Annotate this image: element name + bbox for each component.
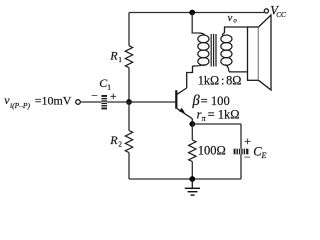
svg-text:+: +	[110, 89, 117, 103]
resistor RE 100 Ohm	[189, 140, 196, 162]
label V_CC	[270, 3, 286, 19]
wire: CE branch upper	[240, 124, 242, 149]
wire: C1 to transistor base	[107, 101, 175, 103]
svg-text:v: v	[228, 12, 233, 24]
transformer primary winding	[193, 33, 209, 66]
label R1	[109, 49, 122, 65]
speaker cone	[259, 15, 272, 90]
svg-text:= 100: = 100	[201, 94, 230, 108]
svg-text:R: R	[109, 133, 118, 147]
wire: base node down to R2	[128, 102, 130, 131]
wire: RE to ground rail	[191, 162, 193, 180]
capacitor C1 (electrolytic block)	[101, 95, 107, 109]
label v_o	[228, 12, 238, 24]
wire: emitter diag end down to node	[191, 119, 193, 124]
svg-text:+: +	[244, 134, 251, 148]
svg-text:=10mV: =10mV	[35, 93, 72, 107]
node: emitter junction dot	[189, 121, 195, 127]
resistor R2	[125, 131, 132, 153]
label C1	[99, 76, 111, 92]
svg-text:= 1kΩ: = 1kΩ	[208, 107, 240, 121]
label r_pi = 1kOhm	[197, 107, 240, 123]
svg-text:CC: CC	[276, 11, 286, 19]
wire: R2 to bottom rail	[128, 153, 130, 179]
node: base junction dot	[126, 99, 132, 105]
svg-text:1: 1	[118, 55, 122, 64]
label v_i(P-P) = 10mV	[4, 93, 72, 110]
wire: Vcc rail down to R1	[128, 13, 130, 46]
resistor R1	[125, 46, 132, 68]
capacitor CE (electrolytic block)	[234, 149, 249, 155]
svg-text:100Ω: 100Ω	[198, 144, 226, 158]
svg-text:R: R	[109, 49, 118, 63]
wire: bottom rail	[129, 178, 241, 180]
speaker driver rectangle	[248, 27, 259, 80]
svg-text:−: −	[244, 150, 251, 164]
node: junction dot on Vcc rail	[189, 10, 195, 16]
wire: Vcc dot down to transformer primary	[192, 13, 199, 34]
wire: CE branch lower	[240, 154, 242, 179]
transistor Q1	[176, 88, 192, 119]
svg-text:o: o	[233, 18, 237, 25]
wire: secondary top to speaker	[225, 27, 248, 33]
svg-text:E: E	[261, 151, 267, 160]
wire: input terminal to C1	[80, 101, 101, 103]
label C_E	[253, 144, 266, 160]
terminal: Vcc open circle	[264, 9, 268, 13]
wire: Vcc top rail	[129, 12, 264, 14]
node: ground junction dot	[189, 176, 195, 182]
svg-text:−: −	[91, 89, 98, 103]
label R2	[109, 133, 122, 149]
wire: R1 to base node	[128, 68, 130, 102]
wire: collector stair up to transformer primary	[187, 66, 193, 88]
svg-text:i(P–P): i(P–P)	[10, 101, 30, 110]
ground	[185, 179, 200, 195]
wire: emitter node to CE branch	[192, 123, 241, 125]
wire: emitter node down to RE	[191, 124, 193, 140]
transformer core	[211, 34, 216, 67]
wire: secondary bottom to speaker	[229, 71, 248, 73]
transformer secondary winding	[221, 33, 232, 72]
svg-text:2: 2	[118, 140, 122, 149]
terminal: input open circle	[76, 100, 81, 105]
